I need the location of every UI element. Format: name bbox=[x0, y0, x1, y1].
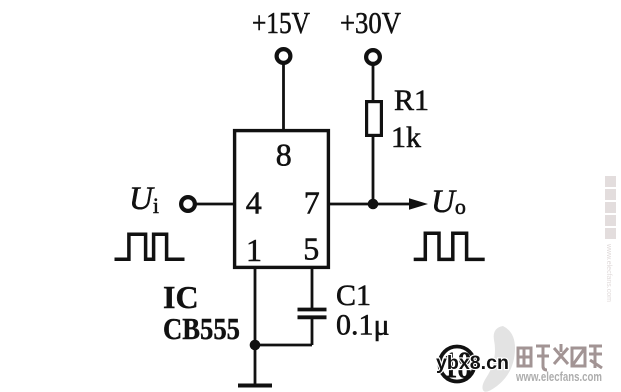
svg-text:CB555: CB555 bbox=[163, 312, 240, 346]
svg-text:1k: 1k bbox=[391, 121, 421, 154]
svg-text:C1: C1 bbox=[336, 279, 371, 312]
svg-text:+15V: +15V bbox=[252, 5, 310, 40]
watermark brand glyphs bbox=[518, 344, 602, 370]
svg-text:IC: IC bbox=[163, 279, 199, 315]
label Uo bbox=[431, 184, 466, 220]
pin 4 bbox=[246, 185, 262, 221]
watermark ybx8.cn bbox=[436, 353, 509, 374]
svg-text:R1: R1 bbox=[394, 84, 429, 117]
svg-text:www.elecfans.com: www.elecfans.com bbox=[605, 243, 612, 302]
svg-text:0.1μ: 0.1μ bbox=[336, 309, 390, 342]
input square wave bbox=[115, 234, 185, 259]
op IC box CB555 bbox=[235, 131, 329, 268]
label C1 bbox=[336, 279, 371, 312]
pin 8 bbox=[276, 137, 292, 173]
junction node 7 bbox=[368, 199, 379, 210]
resistor R1 bbox=[367, 102, 382, 136]
svg-text:+30V: +30V bbox=[340, 5, 402, 40]
wire to ground bbox=[254, 345, 257, 386]
junction node ground bbox=[250, 340, 261, 351]
svg-text:5: 5 bbox=[303, 231, 319, 267]
wire pin 1 down bbox=[254, 267, 257, 345]
wire +15V to pin 8 bbox=[282, 63, 285, 130]
label R1 bbox=[394, 84, 429, 117]
watermark www.elecfans.com bbox=[515, 370, 602, 384]
output square wave bbox=[414, 233, 485, 259]
svg-text:ybx8.cn: ybx8.cn bbox=[436, 353, 509, 374]
terminal +15V bbox=[277, 49, 291, 63]
wire pin 5 to C1 bbox=[311, 267, 314, 308]
svg-text:1: 1 bbox=[246, 232, 262, 268]
wire C1 down bbox=[311, 318, 314, 345]
label 1k bbox=[391, 121, 421, 154]
pin 7 bbox=[304, 185, 320, 221]
pin 5 bbox=[303, 231, 319, 267]
ground bbox=[238, 384, 272, 388]
svg-text:7: 7 bbox=[304, 185, 320, 221]
pin 1 bbox=[246, 232, 262, 268]
terminal Ui bbox=[181, 197, 195, 211]
terminal +30V bbox=[366, 50, 380, 64]
svg-text:8: 8 bbox=[276, 137, 292, 173]
watermark logo circle 18 bbox=[440, 347, 475, 382]
wire pin 7 to output arrow bbox=[330, 203, 413, 206]
svg-text:www.elecfans.com: www.elecfans.com bbox=[515, 370, 602, 384]
wire C1 to junction bbox=[255, 344, 312, 347]
capacitor C1 bbox=[298, 310, 327, 318]
label CB555 bbox=[163, 312, 240, 346]
node +15V label bbox=[252, 5, 310, 40]
watermark vertical column bbox=[605, 176, 616, 302]
arrow to Uo bbox=[409, 198, 428, 210]
node +30V label bbox=[340, 5, 402, 40]
svg-text:4: 4 bbox=[246, 185, 262, 221]
wire Ui to pin 4 bbox=[195, 203, 233, 206]
label Ui bbox=[129, 181, 159, 218]
wire R1 to node 7 bbox=[372, 137, 375, 204]
label IC bbox=[163, 279, 199, 315]
label 0.1u bbox=[336, 309, 390, 342]
wire +30V to R1 bbox=[372, 64, 375, 100]
watermark swoosh bbox=[482, 326, 515, 392]
